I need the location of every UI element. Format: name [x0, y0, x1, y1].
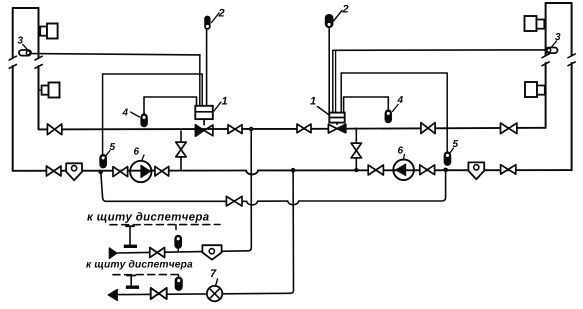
- wire hot bypass left x181: [180, 131, 182, 171]
- valve top-right: [421, 123, 435, 134]
- wire sensor stem left: [206, 30, 208, 107]
- pump left: [130, 161, 151, 182]
- control valve 1 (left): [195, 125, 213, 136]
- node junction left bypass: [98, 170, 103, 175]
- wire sensing line y54 (left riser to valve unit): [31, 54, 200, 55]
- wire capillary pair right: [333, 50, 341, 112]
- thermometer 4 (left): [141, 97, 147, 127]
- heater block A1 on left riser: [39, 24, 58, 39]
- valve pump-row R3: [501, 165, 516, 174]
- label 1 left + leader: [214, 97, 228, 112]
- thermometer 3 (left): [19, 50, 31, 56]
- node junction right bypass T: [354, 168, 358, 172]
- label 5 left + leader: [106, 143, 115, 156]
- wire loop y97 (left): [144, 97, 197, 106]
- label 3 left + leader: [18, 37, 28, 50]
- valve pump-row R2: [420, 165, 435, 175]
- pipe-break marks right riser: [542, 54, 575, 66]
- flow arrow row2: [108, 289, 117, 300]
- valve row2: [151, 288, 167, 299]
- valve row1: [150, 248, 165, 258]
- thermometer 5 (left): [100, 155, 106, 168]
- valve hot bypass left: [176, 142, 186, 157]
- heater block B2 on right riser: [525, 82, 545, 97]
- wire pump row main: [13, 170, 572, 174]
- wire inner loop y73 (right): [341, 72, 447, 74]
- valve center-left: [228, 125, 242, 134]
- strainer row1: [202, 245, 221, 260]
- wire sensing line y50 (valve unit to right riser): [334, 49, 546, 51]
- wire loop y97 (right): [344, 97, 389, 113]
- control valve 1 (right): [328, 124, 345, 133]
- heater block B1 on right riser: [525, 16, 546, 31]
- node junction right bypass: [443, 168, 448, 173]
- valve pump-row R1: [368, 165, 383, 175]
- signal tick capsule row1: [175, 225, 177, 230]
- node junction top line x251: [249, 127, 254, 132]
- thermometer row1: [175, 235, 181, 252]
- thermometer 5 (right): [444, 152, 450, 165]
- regulator head 1 (left): [195, 106, 213, 125]
- valve bypass: [226, 196, 242, 206]
- valve pump-row L0: [46, 166, 61, 176]
- label 5 right + leader: [450, 140, 459, 153]
- valve hot bypass right: [351, 143, 361, 158]
- wire right riser outer edge: [571, 3, 573, 170]
- label 2 right + leader: [334, 5, 349, 21]
- label 6 left + leader: [134, 148, 144, 161]
- wire inner loop y74 (left): [103, 73, 203, 75]
- wire sensor stem right: [328, 28, 330, 113]
- regulator head 1 (right): [329, 113, 344, 125]
- temperature sensor 2 (left): [204, 16, 210, 30]
- thermometer row2: [175, 277, 182, 290]
- sensor tap row1: [124, 226, 137, 248]
- wire right riser inner edge: [545, 3, 547, 128]
- wire hot bypass right x356: [355, 128, 357, 170]
- valve top-left: [47, 124, 61, 135]
- sensor tap row2: [126, 276, 139, 289]
- strainer right: [468, 162, 484, 179]
- heater block A2 on left riser: [39, 83, 60, 98]
- temperature sensor 2 (right): [325, 14, 334, 28]
- signal tick capsule row2: [178, 275, 180, 278]
- wire riser of thermometer 5 left: [102, 74, 104, 155]
- wire left riser inner edge: [38, 8, 40, 129]
- text to dispatcher panel row1: [87, 212, 209, 223]
- strainer left: [66, 163, 82, 180]
- wire riser of thermometer 5 right: [446, 73, 448, 152]
- node junction center pump row: [291, 168, 296, 173]
- wire drop x251 to row1: [117, 129, 251, 253]
- elevator 7: [207, 286, 222, 301]
- pipe-break marks left riser: [9, 56, 42, 68]
- label 4 right + leader: [393, 96, 403, 111]
- wire right riser top: [546, 2, 572, 4]
- wire drop x293 to row2: [117, 170, 293, 294]
- text to dispatcher panel row2: [86, 260, 192, 270]
- valve top-right outer: [501, 123, 517, 134]
- wire top main line: [39, 128, 546, 130]
- label 6 right + leader: [398, 147, 405, 160]
- valve pump-row L1: [113, 167, 128, 177]
- wire bypass line: [101, 172, 446, 205]
- label 1 right + leader: [310, 97, 328, 115]
- valve center-right: [297, 124, 311, 133]
- signal dashed line row2: [113, 274, 182, 276]
- valve pump-row L2: [155, 166, 169, 176]
- wire left riser outer edge: [12, 8, 14, 171]
- thermometer 4 (right): [385, 97, 391, 123]
- label 2 left + leader: [212, 9, 225, 23]
- label 4 left + leader: [122, 109, 139, 117]
- signal dashed line row1: [110, 224, 220, 226]
- label 3 right + leader: [552, 33, 561, 47]
- wire capillary pair left: [200, 55, 202, 106]
- label 7 + leader: [211, 269, 218, 286]
- wire left riser top: [13, 7, 39, 9]
- flow arrow row1: [109, 248, 117, 259]
- thermometer 3 (right): [546, 48, 558, 54]
- pump right: [393, 160, 414, 181]
